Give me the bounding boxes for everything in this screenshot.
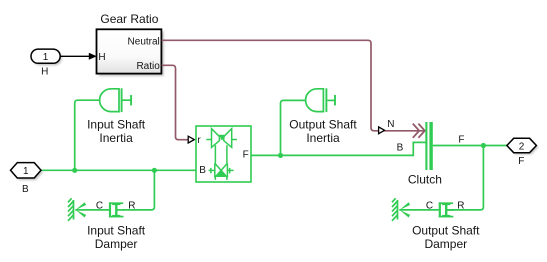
- svg-text:Gear Ratio: Gear Ratio: [100, 12, 158, 26]
- svg-text:1: 1: [43, 52, 49, 63]
- bottom pulley shaft stubs: [209, 169, 215, 171]
- svg-text:H: H: [98, 52, 105, 63]
- svg-text:C: C: [426, 200, 433, 211]
- clamp arrow at wall: [75, 202, 86, 210]
- junction to input inertia: [72, 168, 77, 173]
- svg-text:B: B: [199, 165, 206, 176]
- svg-text:Input Shaft: Input Shaft: [87, 118, 146, 132]
- svg-text:1: 1: [23, 166, 29, 177]
- svg-text:Ratio: Ratio: [136, 61, 160, 72]
- wire clutch F to outport: [433, 145, 507, 147]
- svg-text:C: C: [96, 200, 103, 211]
- inport 1 (H): [31, 49, 62, 78]
- wire Neutral to Clutch N (physical signal): [162, 40, 424, 131]
- main shaft wire B (hexport1 to CVT B): [41, 169, 196, 171]
- bearing ticks: [210, 168, 212, 174]
- svg-text:B: B: [22, 184, 29, 195]
- hexagonal connection port 1 (B): [11, 163, 43, 195]
- piston: [445, 204, 447, 215]
- wire output damper R up to F line: [447, 146, 483, 210]
- clutch N port marker: [379, 127, 385, 134]
- belt feet: [214, 178, 216, 180]
- top pulley right cone: [224, 129, 232, 148]
- svg-text:Inertia: Inertia: [306, 131, 340, 145]
- svg-text:Neutral: Neutral: [128, 37, 160, 48]
- inertia block Input Shaft Inertia: [100, 88, 131, 112]
- subsystem block Gear Ratio: [97, 12, 164, 76]
- svg-text:B: B: [397, 142, 404, 153]
- bottom belt wedge: [216, 170, 225, 177]
- svg-text:Damper: Damper: [95, 237, 138, 251]
- rotational damper Input Shaft Damper: [68, 198, 124, 221]
- piston: [115, 204, 117, 215]
- bottom pulley right edge: [226, 163, 228, 177]
- wire C: [399, 209, 439, 211]
- svg-text:2: 2: [519, 141, 525, 152]
- rotational damper Output Shaft Damper: [392, 198, 454, 221]
- clutch plates: [426, 122, 431, 170]
- svg-text:Inertia: Inertia: [99, 131, 133, 145]
- variable ratio transmission block (CVT): [196, 126, 251, 182]
- CVT r port marker: [188, 136, 194, 143]
- clutch N chevron arrowhead: [413, 124, 425, 138]
- belt lines: [214, 145, 216, 163]
- ground wall: [397, 200, 399, 220]
- hexagonal connection port 2 (F): [507, 138, 538, 167]
- svg-text:F: F: [243, 150, 249, 161]
- svg-text:F: F: [458, 134, 464, 145]
- svg-text:Output Shaft: Output Shaft: [289, 118, 357, 132]
- svg-text:H: H: [41, 67, 48, 78]
- bottom pulley left edge: [214, 163, 216, 177]
- clamp arrow at wall: [399, 202, 410, 210]
- wire Ratio to CVT r (physical signal): [162, 65, 189, 139]
- svg-text:N: N: [387, 119, 394, 130]
- wire inport1 to Gear Ratio H: [60, 53, 97, 60]
- svg-text:Clutch: Clutch: [408, 172, 442, 186]
- junction to input damper: [152, 168, 157, 173]
- bottom pulley cross diagonals: [215, 163, 228, 177]
- svg-text:R: R: [128, 200, 135, 211]
- belt wedge top: [219, 135, 225, 140]
- wire CVT F to clutch B: [251, 142, 425, 155]
- rod R: [447, 209, 454, 211]
- svg-text:Input Shaft: Input Shaft: [87, 224, 146, 238]
- wire C: [75, 209, 109, 211]
- wire to Output Shaft Inertia: [281, 100, 306, 155]
- junction to output inertia: [278, 153, 283, 158]
- svg-text:F: F: [518, 156, 524, 167]
- cylinder: [439, 202, 441, 217]
- junction to output damper: [481, 143, 486, 148]
- wire to Input Shaft Inertia: [75, 100, 100, 170]
- svg-text:Output Shaft: Output Shaft: [412, 224, 480, 238]
- ground wall: [73, 200, 75, 220]
- svg-text:R: R: [457, 200, 464, 211]
- top pulley left cone: [212, 129, 220, 148]
- svg-text:Damper: Damper: [424, 237, 467, 251]
- wire input damper R to main line: [123, 170, 154, 210]
- inertia block Output Shaft Inertia: [306, 88, 335, 112]
- top pulley shaft stubs: [206, 139, 211, 141]
- rod R: [117, 209, 124, 211]
- cylinder: [109, 202, 111, 217]
